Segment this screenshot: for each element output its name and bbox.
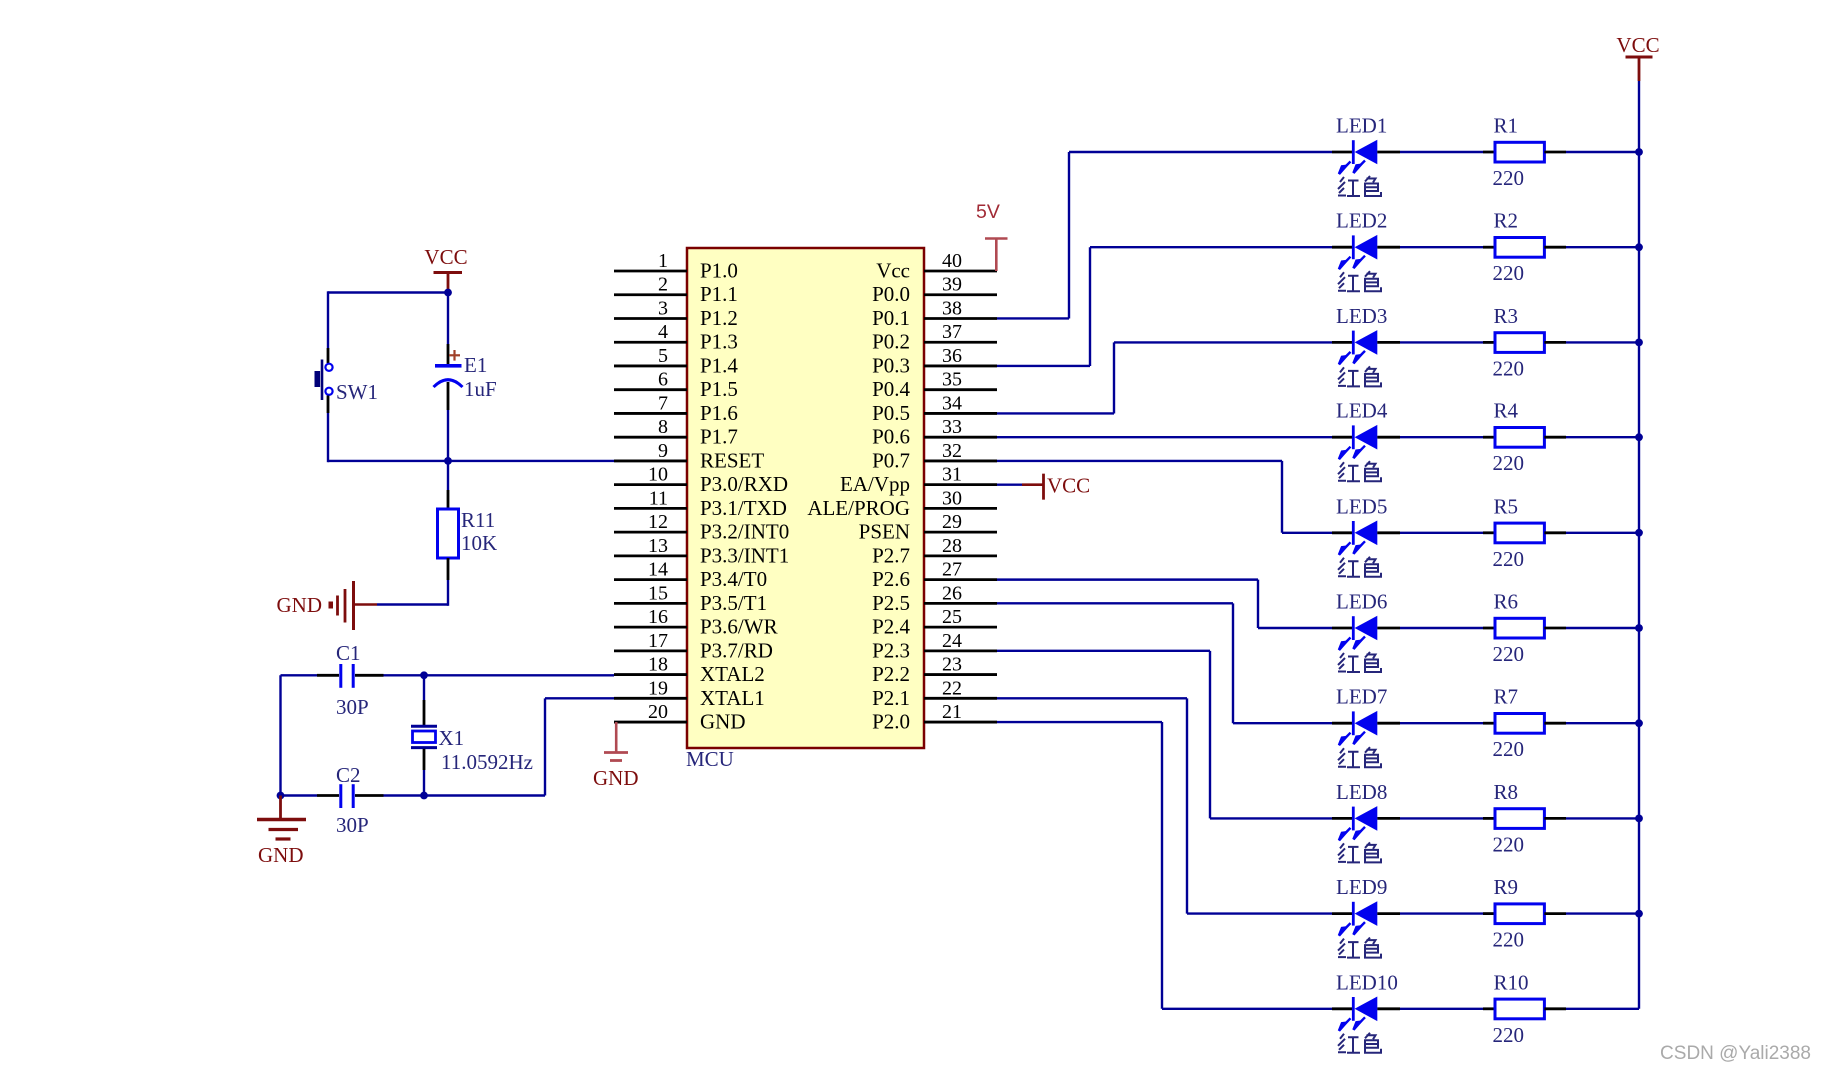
wire R2 to VCC bus — [1544, 246, 1566, 249]
wire X1 junction to MCU pin 18 XTAL2 — [424, 674, 614, 676]
svg-text:LED1: LED1 — [1336, 114, 1387, 138]
wire VCC bus — [1638, 81, 1640, 1009]
svg-text:SW1: SW1 — [336, 380, 378, 404]
MCU right pin 27 stub — [924, 578, 997, 581]
wire LED8 to R8 — [1400, 817, 1483, 819]
svg-text:LED6: LED6 — [1336, 590, 1387, 614]
svg-text:11: 11 — [649, 487, 668, 509]
wire MCU pin 32 to LED5 — [997, 460, 1282, 462]
svg-text:P0.0: P0.0 — [872, 282, 910, 306]
svg-text:P3.5/T1: P3.5/T1 — [700, 591, 767, 615]
resistor R5 — [1495, 523, 1544, 543]
svg-text:23: 23 — [942, 654, 962, 676]
MCU U1 body — [687, 248, 924, 748]
MCU right pin 39 stub — [924, 293, 997, 296]
MCU right pin 25 stub — [924, 626, 997, 629]
wire R11 to gnd corner — [447, 558, 450, 580]
wire LED7 to R7 — [1400, 722, 1483, 724]
svg-text:EA/Vpp: EA/Vpp — [840, 472, 910, 496]
svg-text:P0.7: P0.7 — [872, 448, 910, 472]
LED10 colour label red — [1338, 1033, 1381, 1053]
svg-text:P1.4: P1.4 — [700, 353, 738, 377]
MCU right pin 40 stub — [924, 270, 997, 273]
svg-text:10: 10 — [648, 464, 668, 486]
svg-text:220: 220 — [1493, 832, 1525, 856]
svg-text:P1.0: P1.0 — [700, 259, 738, 283]
svg-text:P0.6: P0.6 — [872, 425, 910, 449]
svg-text:P1.3: P1.3 — [700, 330, 738, 354]
svg-text:1: 1 — [658, 250, 668, 272]
LED1 diode — [1332, 140, 1400, 174]
node bus junction LED1 — [1635, 148, 1643, 156]
node bus junction LED6 — [1635, 624, 1643, 632]
svg-text:17: 17 — [648, 630, 668, 652]
svg-text:30P: 30P — [336, 813, 369, 837]
LED2 diode — [1332, 235, 1400, 269]
svg-text:P0.5: P0.5 — [872, 401, 910, 425]
LED6 diode — [1332, 616, 1400, 650]
LED5 colour label red — [1338, 557, 1381, 577]
wire reset row to R11 — [447, 461, 449, 490]
power VCC at EA/Vpp — [1022, 483, 1043, 486]
svg-text:MCU: MCU — [686, 747, 734, 771]
svg-text:R7: R7 — [1494, 685, 1519, 709]
svg-text:R1: R1 — [1494, 114, 1519, 138]
wire R8 to VCC bus — [1544, 817, 1566, 820]
MCU left pin 4 stub — [614, 341, 687, 344]
svg-text:27: 27 — [942, 559, 962, 581]
svg-text:P1.1: P1.1 — [700, 282, 738, 306]
wire riser to MCU pin 19 XTAL1 — [545, 697, 614, 699]
wire C2 to X1 bottom junction — [355, 794, 384, 797]
LED2 colour label red — [1338, 271, 1381, 291]
svg-text:GND: GND — [277, 593, 323, 617]
node reset-top junction — [444, 289, 452, 297]
svg-text:P0.4: P0.4 — [872, 377, 910, 401]
svg-text:220: 220 — [1493, 642, 1525, 666]
svg-text:VCC: VCC — [1616, 33, 1659, 57]
svg-text:P2.5: P2.5 — [872, 591, 910, 615]
wire MCU pin 27 to LED6 — [997, 578, 1258, 580]
svg-text:9: 9 — [658, 440, 668, 462]
svg-text:19: 19 — [648, 677, 668, 699]
wire C2 row to XTAL1 riser — [424, 794, 545, 796]
svg-text:P2.3: P2.3 — [872, 638, 910, 662]
svg-text:P2.7: P2.7 — [872, 543, 910, 567]
resistor R6 — [1495, 618, 1544, 638]
wire R4 to VCC bus — [1544, 436, 1566, 439]
svg-text:C1: C1 — [336, 641, 361, 665]
svg-text:LED2: LED2 — [1336, 209, 1387, 233]
MCU left pin 14 stub — [614, 578, 687, 581]
svg-text:31: 31 — [942, 464, 962, 486]
svg-text:LED4: LED4 — [1336, 399, 1388, 423]
svg-text:P1.2: P1.2 — [700, 306, 738, 330]
svg-text:7: 7 — [658, 392, 668, 414]
LED4 diode — [1332, 425, 1400, 459]
wire LED4 to R4 — [1400, 436, 1483, 438]
wire E1 to reset row — [447, 382, 450, 410]
wire SW1 bottom branch — [327, 396, 330, 414]
wire LED10 to R10 — [1400, 1008, 1483, 1010]
svg-text:P3.1/TXD: P3.1/TXD — [700, 496, 787, 520]
svg-text:PSEN: PSEN — [859, 520, 910, 544]
wire R10 to VCC bus — [1544, 1007, 1566, 1010]
svg-text:21: 21 — [942, 701, 962, 723]
MCU right pin 26 stub — [924, 602, 997, 605]
wire MCU pin 22 to LED9 — [997, 697, 1187, 699]
MCU right pin 30 stub — [924, 507, 997, 510]
capacitor E1 plus sign — [449, 354, 460, 356]
wire X1 top lead — [423, 675, 425, 700]
svg-text:R4: R4 — [1494, 399, 1519, 423]
svg-text:P3.4/T0: P3.4/T0 — [700, 567, 767, 591]
MCU right pin 37 stub — [924, 341, 997, 344]
svg-text:220: 220 — [1493, 928, 1525, 952]
svg-text:P0.1: P0.1 — [872, 306, 910, 330]
svg-text:P0.2: P0.2 — [872, 330, 910, 354]
MCU left pin 3 stub — [614, 317, 687, 320]
svg-text:34: 34 — [942, 392, 962, 414]
MCU left pin 13 stub — [614, 554, 687, 557]
svg-text:P2.6: P2.6 — [872, 567, 910, 591]
MCU left pin 1 stub — [614, 270, 687, 273]
ground GND bottom-left — [257, 796, 306, 840]
wire C2 row left — [281, 794, 318, 796]
svg-text:RESET: RESET — [700, 448, 764, 472]
MCU right pin 32 stub — [924, 460, 997, 463]
power VCC top-right symbol — [1626, 56, 1653, 59]
wire MCU pin 33 to LED4 — [997, 436, 1332, 438]
svg-text:28: 28 — [942, 535, 962, 557]
node bus junction LED7 — [1635, 719, 1643, 727]
MCU left pin 20 stub — [614, 721, 687, 724]
node bus junction LED4 — [1635, 433, 1643, 441]
svg-text:220: 220 — [1493, 737, 1525, 761]
svg-text:X1: X1 — [439, 726, 465, 750]
power VCC top-left symbol — [434, 271, 463, 274]
svg-text:220: 220 — [1493, 547, 1525, 571]
svg-text:25: 25 — [942, 606, 962, 628]
MCU right pin 36 stub — [924, 365, 997, 368]
svg-text:P3.7/RD: P3.7/RD — [700, 638, 773, 662]
svg-text:P2.1: P2.1 — [872, 686, 910, 710]
svg-text:R2: R2 — [1494, 209, 1519, 233]
svg-text:220: 220 — [1493, 261, 1525, 285]
wire LED9 to R9 — [1400, 912, 1483, 914]
wire XTAL1 riser — [544, 698, 546, 795]
resistor R9 — [1495, 904, 1544, 924]
wire SW1 top branch — [327, 291, 329, 348]
svg-text:26: 26 — [942, 582, 962, 604]
svg-text:30: 30 — [942, 487, 962, 509]
svg-text:R9: R9 — [1494, 875, 1519, 899]
MCU right pin 23 stub — [924, 673, 997, 676]
wire reset row to MCU pin 9 — [328, 460, 614, 462]
MCU left pin 17 stub — [614, 649, 687, 652]
wire MCU pin 21 to LED10 — [997, 721, 1162, 723]
svg-text:VCC: VCC — [1047, 474, 1090, 498]
svg-text:220: 220 — [1493, 356, 1525, 380]
MCU right pin 31 stub — [924, 483, 997, 486]
svg-text:XTAL2: XTAL2 — [700, 662, 765, 686]
svg-text:P1.6: P1.6 — [700, 401, 738, 425]
ground at MCU pin 20 — [604, 722, 628, 760]
svg-text:35: 35 — [942, 369, 962, 391]
LED5 diode — [1332, 521, 1400, 555]
svg-text:Vcc: Vcc — [876, 259, 910, 283]
svg-text:16: 16 — [648, 606, 668, 628]
svg-text:13: 13 — [648, 535, 668, 557]
svg-text:20: 20 — [648, 701, 668, 723]
svg-text:4: 4 — [658, 321, 668, 343]
MCU left pin 8 stub — [614, 436, 687, 439]
crystal X1 — [411, 726, 437, 747]
wire C1 row left — [281, 674, 318, 676]
svg-text:12: 12 — [648, 511, 668, 533]
MCU left pin 6 stub — [614, 388, 687, 391]
wire MCU pin 34 to LED3 — [997, 412, 1114, 414]
MCU right pin 35 stub — [924, 388, 997, 391]
MCU right pin 22 stub — [924, 697, 997, 700]
MCU left pin 7 stub — [614, 412, 687, 415]
LED7 colour label red — [1338, 747, 1381, 767]
svg-text:14: 14 — [648, 559, 668, 581]
LED10 diode — [1332, 997, 1400, 1031]
svg-text:LED3: LED3 — [1336, 304, 1387, 328]
svg-text:2: 2 — [658, 274, 668, 296]
svg-text:32: 32 — [942, 440, 962, 462]
wire LED6 to R6 — [1400, 627, 1483, 629]
MCU left pin 18 stub — [614, 673, 687, 676]
svg-text:24: 24 — [942, 630, 962, 652]
svg-text:GND: GND — [593, 766, 639, 790]
node bus junction LED9 — [1635, 910, 1643, 918]
svg-text:P3.3/INT1: P3.3/INT1 — [700, 543, 789, 567]
svg-text:LED7: LED7 — [1336, 685, 1387, 709]
MCU left pin 12 stub — [614, 531, 687, 534]
svg-text:29: 29 — [942, 511, 962, 533]
capacitor E1 — [434, 364, 463, 387]
svg-text:R5: R5 — [1494, 494, 1519, 518]
svg-text:LED5: LED5 — [1336, 494, 1387, 518]
MCU right pin 21 stub — [924, 721, 997, 724]
wire vcc junction to SW1 branch — [328, 291, 448, 293]
wire R5 to VCC bus — [1544, 531, 1566, 534]
wire LED1 to R1 — [1400, 151, 1483, 153]
svg-text:5V: 5V — [976, 201, 1000, 223]
svg-text:11.0592Hz: 11.0592Hz — [441, 750, 533, 774]
MCU left pin 16 stub — [614, 626, 687, 629]
wire X1 bottom lead — [423, 749, 426, 770]
svg-text:XTAL1: XTAL1 — [700, 686, 765, 710]
wire MCU pin 26 to LED7 — [997, 602, 1233, 604]
svg-text:LED10: LED10 — [1336, 970, 1398, 994]
MCU left pin 9 stub — [614, 460, 687, 463]
svg-text:CSDN @Yali2388: CSDN @Yali2388 — [1660, 1043, 1811, 1064]
node crystal gnd junction — [277, 792, 285, 800]
wire MCU pin 38 to LED1 — [997, 317, 1069, 319]
wire R1 to VCC bus — [1544, 151, 1566, 154]
wire R3 to VCC bus — [1544, 341, 1566, 344]
svg-text:37: 37 — [942, 321, 962, 343]
svg-text:GND: GND — [700, 710, 746, 734]
svg-text:39: 39 — [942, 274, 962, 296]
node bus junction LED8 — [1635, 815, 1643, 823]
resistor R2 — [1495, 238, 1544, 258]
wire EA/Vpp to VCC — [997, 483, 1022, 485]
power 5V symbol — [985, 237, 1008, 240]
node bus junction LED5 — [1635, 529, 1643, 537]
node X1 top junction — [420, 671, 428, 679]
node reset junction — [444, 457, 452, 465]
MCU left pin 2 stub — [614, 293, 687, 296]
wire crystal left rail — [279, 675, 281, 795]
MCU right pin 28 stub — [924, 554, 997, 557]
LED8 diode — [1332, 806, 1400, 840]
LED3 colour label red — [1338, 366, 1381, 386]
svg-text:R10: R10 — [1494, 970, 1529, 994]
svg-text:P1.5: P1.5 — [700, 377, 738, 401]
resistor R10 — [1495, 999, 1544, 1019]
capacitor C1 — [341, 664, 353, 688]
MCU left pin 5 stub — [614, 365, 687, 368]
svg-text:40: 40 — [942, 250, 962, 272]
svg-text:15: 15 — [648, 582, 668, 604]
svg-text:10K: 10K — [461, 531, 497, 555]
LED9 colour label red — [1338, 938, 1381, 958]
LED8 colour label red — [1338, 842, 1381, 862]
LED9 diode — [1332, 901, 1400, 935]
LED7 diode — [1332, 711, 1400, 745]
MCU right pin 34 stub — [924, 412, 997, 415]
svg-text:5: 5 — [658, 345, 668, 367]
svg-text:30P: 30P — [336, 695, 369, 719]
ground GND left of R11 — [329, 581, 378, 630]
node bus junction LED2 — [1635, 243, 1643, 251]
resistor R8 — [1495, 809, 1544, 829]
MCU right pin 24 stub — [924, 649, 997, 652]
MCU right pin 29 stub — [924, 531, 997, 534]
resistor R4 — [1495, 428, 1544, 448]
svg-text:E1: E1 — [464, 353, 487, 377]
wire R9 to VCC bus — [1544, 912, 1566, 915]
MCU left pin 10 stub — [614, 483, 687, 486]
MCU left pin 11 stub — [614, 507, 687, 510]
wire vcc to E1 — [447, 293, 449, 345]
svg-text:LED8: LED8 — [1336, 780, 1387, 804]
MCU right pin 33 stub — [924, 436, 997, 439]
svg-text:220: 220 — [1493, 451, 1525, 475]
svg-text:R8: R8 — [1494, 780, 1519, 804]
svg-text:P2.4: P2.4 — [872, 615, 910, 639]
svg-text:18: 18 — [648, 654, 668, 676]
svg-text:1uF: 1uF — [464, 377, 497, 401]
svg-text:R11: R11 — [461, 508, 495, 532]
svg-text:38: 38 — [942, 297, 962, 319]
svg-text:P3.6/WR: P3.6/WR — [700, 615, 778, 639]
svg-text:P3.2/INT0: P3.2/INT0 — [700, 520, 789, 544]
svg-text:P2.0: P2.0 — [872, 710, 910, 734]
LED6 colour label red — [1338, 652, 1381, 672]
svg-text:22: 22 — [942, 677, 962, 699]
capacitor C2 — [341, 784, 353, 808]
resistor R11 — [438, 509, 459, 558]
resistor R1 — [1495, 142, 1544, 162]
wire LED3 to R3 — [1400, 341, 1483, 343]
svg-text:220: 220 — [1493, 166, 1525, 190]
wire MCU pin 24 to LED8 — [997, 650, 1210, 652]
LED1 colour label red — [1338, 176, 1381, 196]
resistor R7 — [1495, 714, 1544, 734]
wire C1 to X1 junction — [355, 674, 384, 677]
wire LED5 to R5 — [1400, 532, 1483, 534]
svg-text:220: 220 — [1493, 1023, 1525, 1047]
MCU left pin 15 stub — [614, 602, 687, 605]
wire LED2 to R2 — [1400, 246, 1483, 248]
svg-text:GND: GND — [258, 843, 304, 867]
wire R7 to VCC bus — [1544, 722, 1566, 725]
svg-text:8: 8 — [658, 416, 668, 438]
svg-text:33: 33 — [942, 416, 962, 438]
node bus junction LED3 — [1635, 339, 1643, 347]
svg-text:36: 36 — [942, 345, 962, 367]
svg-text:P0.3: P0.3 — [872, 353, 910, 377]
svg-text:6: 6 — [658, 369, 668, 391]
svg-text:ALE/PROG: ALE/PROG — [807, 496, 910, 520]
svg-text:C2: C2 — [336, 763, 361, 787]
wire MCU pin 36 to LED2 — [997, 365, 1090, 367]
svg-text:R6: R6 — [1494, 590, 1519, 614]
svg-text:R3: R3 — [1494, 304, 1519, 328]
svg-text:3: 3 — [658, 297, 668, 319]
svg-text:VCC: VCC — [424, 245, 467, 269]
svg-text:LED9: LED9 — [1336, 875, 1387, 899]
svg-text:P1.7: P1.7 — [700, 425, 738, 449]
switch SW1 — [315, 360, 333, 401]
MCU right pin 38 stub — [924, 317, 997, 320]
node X1 bottom junction — [420, 792, 428, 800]
svg-text:P3.0/RXD: P3.0/RXD — [700, 472, 788, 496]
resistor R3 — [1495, 333, 1544, 353]
LED4 colour label red — [1338, 461, 1381, 481]
wire R6 to VCC bus — [1544, 627, 1566, 630]
svg-text:P2.2: P2.2 — [872, 662, 910, 686]
LED3 diode — [1332, 330, 1400, 364]
MCU left pin 19 stub — [614, 697, 687, 700]
